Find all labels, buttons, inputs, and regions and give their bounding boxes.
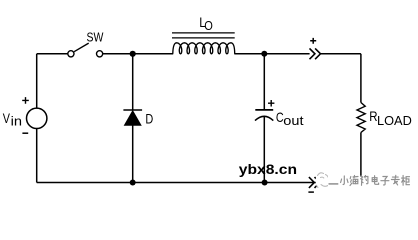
output arrow chevrons top [310,48,321,59]
watermark text white halo [328,176,411,191]
Vin plus sign [22,97,29,104]
watermark chinese text 小海豹电子专柜 [341,176,348,185]
node junction dot bottom cout [262,180,268,186]
wire switch to node A [103,53,133,55]
output plus sign [310,38,316,44]
inductor LO coil [173,43,235,54]
bottom arrow chevrons [309,177,320,188]
diode D cathode bar [123,109,142,111]
inductor core line 1 [172,32,235,34]
wire node A to inductor [133,53,174,55]
wire node B to output arrow [264,53,309,55]
wire bottom rail [37,182,361,184]
wire top left to switch [37,53,68,55]
svg-text:SW: SW [87,29,105,44]
diode D triangle [125,111,141,125]
output minus sign bottom [308,191,314,193]
wire diode column upper [132,54,134,110]
Vin minus sign [22,132,28,134]
watermark logo seal strokes [317,173,329,188]
wire left rail upper [36,54,38,108]
capacitor Cout curved plate [255,116,273,120]
svg-text:ybx8.cn: ybx8.cn [239,162,297,178]
wire inductor to node B [234,53,264,55]
node junction dot top diode [130,51,136,57]
svg-text:D: D [145,110,153,126]
inductor core line 2 [172,37,235,39]
wire cout column lower [263,116,265,182]
wire diode column lower [132,125,134,183]
svg-text:out: out [283,114,304,128]
capacitor Cout top plate [255,109,273,111]
svg-text:O: O [204,18,213,33]
wire right rail upper [360,54,362,103]
capacitor plus sign [268,100,274,107]
node junction dot bottom diode [130,180,136,186]
switch SW circles and lever [68,43,103,57]
resistor RLOAD zigzag [357,103,365,133]
wire left rail lower [36,129,38,183]
voltage source Vin [27,108,47,128]
watermark logo seal white blob [316,172,332,190]
svg-text:V: V [3,110,11,126]
node junction dot top cout [261,51,267,57]
svg-text:LOAD: LOAD [377,114,412,128]
wire right rail lower [360,133,362,183]
wire arrow to top-right corner [321,53,361,55]
wire cout column upper [263,54,265,110]
svg-text:in: in [11,114,22,128]
watermark dash [329,183,339,185]
